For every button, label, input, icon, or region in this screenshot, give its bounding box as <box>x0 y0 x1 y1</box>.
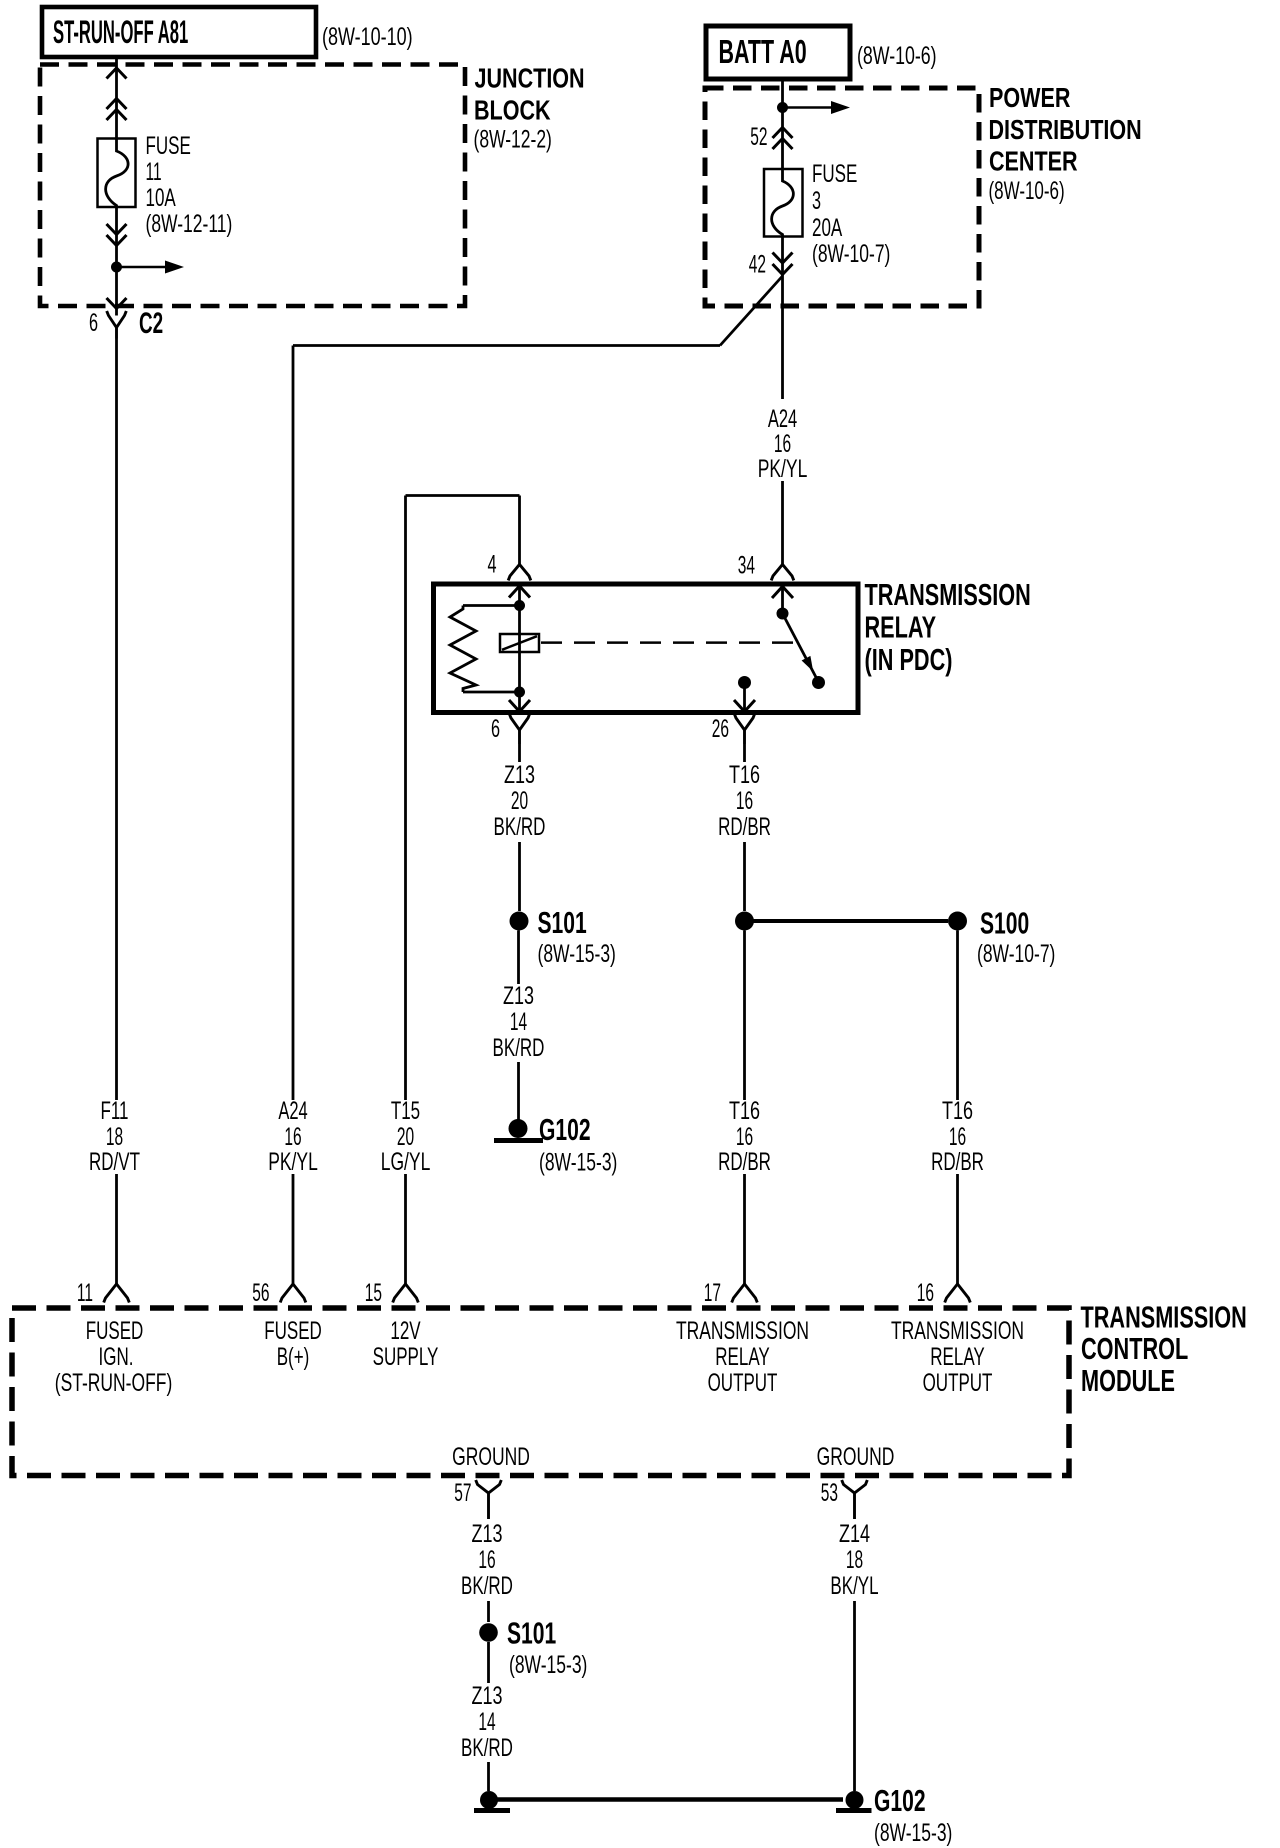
TCM pin 56 connector fork <box>280 1284 306 1303</box>
power feed box ST-RUN-OFF A81 <box>42 7 316 57</box>
svg-text:4: 4 <box>487 551 496 578</box>
svg-text:(8W-15-3): (8W-15-3) <box>509 1650 587 1679</box>
svg-text:6: 6 <box>491 716 500 743</box>
svg-text:SUPPLY: SUPPLY <box>373 1343 439 1371</box>
relay resistor <box>450 606 520 693</box>
double chevron connector above fuse 11 <box>107 99 127 121</box>
wire label Z13 14 BK/RD <box>493 981 545 1062</box>
ground G102 upper symbol <box>494 1119 543 1141</box>
svg-text:S101: S101 <box>507 1615 556 1650</box>
splice S101 <box>510 905 587 940</box>
svg-text:11: 11 <box>146 158 162 186</box>
double chevron connector 42 <box>773 253 793 275</box>
svg-text:BK/YL: BK/YL <box>830 1572 878 1600</box>
pin number 4 <box>487 551 496 578</box>
pin number 42 <box>749 251 766 279</box>
svg-text:RELAY: RELAY <box>715 1343 769 1371</box>
relay actuation dashed link <box>541 641 795 644</box>
svg-text:6: 6 <box>89 310 98 337</box>
wire Z14 down to ground G102 <box>853 1601 856 1791</box>
TCM pin 11 label FUSED IGN. <box>55 1317 173 1397</box>
wire label A24 16 PK/YL <box>758 406 808 483</box>
relay pin 26 arrow out of box <box>734 683 755 712</box>
relay pin 4 arrow into box <box>509 586 530 606</box>
svg-text:RD/BR: RD/BR <box>718 813 771 841</box>
relay coil bottom junction dot <box>514 687 525 698</box>
svg-text:18: 18 <box>846 1546 863 1574</box>
wire label T16 16 RD/BR left column <box>718 1096 771 1176</box>
wire label T16 16 RD/BR <box>718 760 771 841</box>
svg-text:20: 20 <box>511 787 528 815</box>
svg-text:PK/YL: PK/YL <box>268 1147 318 1176</box>
svg-text:3: 3 <box>812 188 821 215</box>
svg-text:BLOCK: BLOCK <box>474 95 551 126</box>
svg-text:(8W-15-3): (8W-15-3) <box>539 1147 617 1176</box>
svg-text:S100: S100 <box>980 905 1029 940</box>
svg-text:OUTPUT: OUTPUT <box>923 1369 993 1397</box>
wire label Z14 18 BK/YL <box>830 1519 878 1600</box>
svg-text:BK/RD: BK/RD <box>461 1572 513 1600</box>
wire T15 jog from relay pin 4 <box>406 496 520 565</box>
transmission relay name label <box>865 577 1031 677</box>
TCM pin 57 connector fork <box>476 1480 502 1519</box>
wire label Z13 14 BK/RD lower <box>461 1681 513 1762</box>
connector name C2 <box>139 307 163 341</box>
ground G102 lower label <box>874 1783 952 1847</box>
svg-text:34: 34 <box>738 552 755 580</box>
svg-text:57: 57 <box>454 1479 471 1507</box>
svg-text:PK/YL: PK/YL <box>758 454 808 483</box>
svg-text:T16: T16 <box>729 1096 760 1125</box>
pin number 15 <box>365 1279 382 1307</box>
svg-text:BK/RD: BK/RD <box>494 813 546 841</box>
svg-text:FUSED: FUSED <box>86 1317 144 1345</box>
svg-text:G102: G102 <box>874 1783 926 1818</box>
svg-text:C2: C2 <box>139 307 163 341</box>
TCM pin 16 label TRANSMISSION RELAY OUTPUT <box>891 1316 1024 1397</box>
svg-text:53: 53 <box>821 1479 838 1507</box>
svg-text:(8W-15-3): (8W-15-3) <box>538 939 616 968</box>
fuse 3 value label <box>812 160 890 268</box>
junction dot with branch arrow in PDC <box>777 101 850 114</box>
svg-text:TRANSMISSION: TRANSMISSION <box>891 1316 1024 1345</box>
relay coil top junction dot <box>514 600 525 611</box>
double chevron connector 52 <box>773 128 793 150</box>
svg-text:TRANSMISSION: TRANSMISSION <box>1081 1300 1247 1335</box>
junction dot with branch arrow in junction block <box>111 261 184 274</box>
connector C2 fork pin 6 <box>107 311 127 339</box>
pin number 26 <box>712 715 729 743</box>
fuse 11 symbol <box>98 139 136 208</box>
svg-text:42: 42 <box>749 251 766 279</box>
relay pin 34 connector fork <box>771 564 794 580</box>
power distribution center name label <box>989 82 1142 204</box>
wire label T16 16 RD/BR right column <box>931 1096 984 1176</box>
wire label T15 20 LG/YL <box>381 1097 431 1176</box>
svg-text:IGN.: IGN. <box>99 1343 134 1371</box>
pin number 17 <box>704 1279 721 1307</box>
label (8W-10-10) <box>322 22 413 51</box>
svg-text:BK/RD: BK/RD <box>493 1034 545 1062</box>
svg-text:JUNCTION: JUNCTION <box>475 63 585 94</box>
svg-text:52: 52 <box>750 123 767 151</box>
pin number 6 at C2 <box>89 310 98 337</box>
svg-text:16: 16 <box>478 1546 495 1574</box>
splice S101 reference label <box>538 939 616 968</box>
double chevron connector below fuse 11 <box>107 224 127 246</box>
svg-text:DISTRIBUTION: DISTRIBUTION <box>989 114 1142 145</box>
connector chevron at junction block border <box>107 68 127 79</box>
TCM pin 56 label FUSED B(+) <box>264 1317 322 1371</box>
wire label A24 16 PK/YL lower <box>268 1098 318 1176</box>
left ground terminal G102 <box>474 1791 510 1811</box>
svg-text:GROUND: GROUND <box>452 1442 530 1471</box>
svg-text:T15: T15 <box>391 1097 420 1125</box>
wire link to splice S100 <box>753 919 948 923</box>
splice junction dot on T16 <box>735 912 754 931</box>
svg-text:CENTER: CENTER <box>989 146 1078 177</box>
svg-text:14: 14 <box>510 1008 527 1036</box>
ground G102 upper label <box>539 1112 617 1176</box>
svg-text:LG/YL: LG/YL <box>381 1147 431 1176</box>
svg-text:56: 56 <box>252 1279 269 1307</box>
relay switch contact dot <box>812 676 825 689</box>
svg-text:(IN PDC): (IN PDC) <box>865 642 953 677</box>
svg-text:FUSED: FUSED <box>264 1317 322 1345</box>
label (8W-10-6) <box>857 41 937 70</box>
svg-text:16: 16 <box>736 787 753 815</box>
wire T16 from relay pin 26 to splice S100 tap <box>743 744 746 911</box>
svg-text:RELAY: RELAY <box>930 1343 984 1371</box>
svg-text:14: 14 <box>478 1708 495 1736</box>
svg-text:(8W-12-2): (8W-12-2) <box>474 124 552 153</box>
pin number 57 <box>454 1479 471 1507</box>
svg-text:Z13: Z13 <box>503 981 534 1010</box>
relay switch pivot dot <box>777 608 789 620</box>
splice S100 reference label <box>977 939 1055 968</box>
relay switch arm <box>783 614 819 683</box>
svg-text:10A: 10A <box>146 184 177 212</box>
TCM ground label right <box>817 1442 895 1471</box>
TCM pin 11 connector fork <box>104 1284 130 1303</box>
wire label F11 18 RD/VT <box>89 1097 140 1176</box>
relay pin 26 contact dot <box>738 676 751 689</box>
TCM pin 16 connector fork <box>945 1284 971 1303</box>
svg-text:FUSE: FUSE <box>812 160 857 188</box>
svg-text:15: 15 <box>365 1279 382 1307</box>
TCM pin 15 connector fork <box>393 1284 419 1303</box>
svg-text:GROUND: GROUND <box>817 1442 895 1471</box>
svg-text:B(+): B(+) <box>277 1343 310 1371</box>
svg-text:RD/BR: RD/BR <box>718 1148 771 1176</box>
relay pin 6 connector fork <box>509 714 530 745</box>
fuse 11 value label <box>146 132 233 238</box>
svg-text:T16: T16 <box>729 760 760 789</box>
junction block dashed box <box>40 65 465 307</box>
power distribution center dashed box <box>705 88 979 306</box>
wire T16 down to TCM pin 17 <box>743 931 746 1285</box>
branch wire horizontal run <box>293 344 720 347</box>
pin number 16 <box>917 1279 934 1307</box>
wire Z13 from relay pin 6 to splice S101 <box>518 744 521 911</box>
svg-text:Z14: Z14 <box>839 1519 870 1548</box>
svg-text:F11: F11 <box>100 1097 128 1125</box>
TCM pin 17 label TRANSMISSION RELAY OUTPUT <box>676 1316 809 1397</box>
wire A24 vertical down to TCM pin 56 <box>292 346 295 1285</box>
svg-text:A24: A24 <box>278 1098 308 1125</box>
svg-text:16: 16 <box>917 1279 934 1307</box>
svg-text:RD/VT: RD/VT <box>89 1148 140 1176</box>
splice S101 lower <box>479 1615 556 1650</box>
TCM ground label left <box>452 1442 530 1471</box>
TCM pin 17 connector fork <box>732 1284 758 1303</box>
ground link wire <box>497 1797 843 1802</box>
svg-text:A24: A24 <box>768 406 798 433</box>
svg-text:TRANSMISSION: TRANSMISSION <box>865 577 1031 612</box>
svg-text:(8W-10-6): (8W-10-6) <box>857 41 937 70</box>
TCM pin 15 label 12V SUPPLY <box>373 1317 439 1371</box>
svg-text:(8W-10-6): (8W-10-6) <box>989 177 1065 205</box>
wire T16 from S100 down to TCM pin 16 <box>956 931 959 1285</box>
svg-text:(8W-12-11): (8W-12-11) <box>146 209 233 238</box>
svg-text:MODULE: MODULE <box>1081 1363 1175 1398</box>
wire BATT feed down to fuse 3 <box>781 79 784 169</box>
pin number 11 <box>77 1279 93 1307</box>
svg-text:11: 11 <box>77 1279 93 1307</box>
fuse 3 symbol <box>764 169 803 237</box>
svg-text:(8W-10-7): (8W-10-7) <box>977 939 1055 968</box>
svg-text:G102: G102 <box>539 1112 591 1147</box>
svg-text:20A: 20A <box>812 214 843 242</box>
wire Z13 from S101 to ground <box>487 1642 490 1683</box>
junction block name label <box>474 63 585 153</box>
pin number 56 <box>252 1279 269 1307</box>
svg-text:TRANSMISSION: TRANSMISSION <box>676 1316 809 1345</box>
svg-text:17: 17 <box>704 1279 721 1307</box>
svg-text:Z13: Z13 <box>504 760 535 789</box>
svg-text:(ST-RUN-OFF): (ST-RUN-OFF) <box>55 1368 173 1397</box>
relay pin 26 connector fork <box>734 714 755 745</box>
wire fuse 11 to splice dot <box>115 207 118 267</box>
pin number 52 <box>750 123 767 151</box>
wire down to connector C2 <box>115 267 118 316</box>
splice S101 lower reference label <box>509 1650 587 1679</box>
relay coil winding <box>500 606 539 693</box>
wire Z13 to splice S101 lower <box>487 1601 490 1622</box>
svg-text:POWER: POWER <box>989 82 1070 113</box>
transmission control module dashed box <box>12 1308 1069 1476</box>
svg-text:BATT A0: BATT A0 <box>719 33 807 70</box>
chevron at junction block lower border <box>107 298 127 309</box>
pin number 53 <box>821 1479 838 1507</box>
right ground terminal G102 <box>836 1791 872 1811</box>
svg-text:T16: T16 <box>942 1096 973 1125</box>
wire F11 from C2 down to TCM pin 11 <box>115 339 118 1285</box>
svg-text:26: 26 <box>712 715 729 743</box>
svg-text:S101: S101 <box>538 905 587 940</box>
wire label Z13 20 BK/RD <box>494 760 546 841</box>
wire down to left ground dot <box>487 1762 490 1791</box>
wire A24 from fuse 3 down to relay pin 34 <box>781 237 784 565</box>
svg-text:OUTPUT: OUTPUT <box>708 1369 778 1397</box>
splice S100 <box>948 905 1029 940</box>
transmission control module name label <box>1081 1300 1247 1398</box>
relay pin 34 arrow into box <box>772 587 793 614</box>
TCM pin 53 connector fork <box>842 1480 868 1519</box>
svg-text:(8W-15-3): (8W-15-3) <box>874 1818 952 1847</box>
relay pin 6 arrow out of box <box>509 692 530 712</box>
svg-text:FUSE: FUSE <box>146 132 191 160</box>
relay pin 4 connector fork <box>508 564 531 580</box>
branch wire diagonal from connector 42 to TCM feed <box>720 276 783 346</box>
svg-text:Z13: Z13 <box>471 1681 502 1710</box>
transmission relay box <box>434 584 859 713</box>
power feed box BATT A0 <box>706 26 850 79</box>
wire T15 vertical down to TCM pin 15 <box>404 496 407 1285</box>
svg-text:RD/BR: RD/BR <box>931 1148 984 1176</box>
wire label Z13 16 BK/RD <box>461 1519 513 1600</box>
svg-text:BK/RD: BK/RD <box>461 1734 513 1762</box>
svg-text:RELAY: RELAY <box>865 610 937 645</box>
svg-text:ST-RUN-OFF A81: ST-RUN-OFF A81 <box>53 15 188 50</box>
svg-text:(8W-10-7): (8W-10-7) <box>812 239 890 268</box>
wire A81 feed down to fuse 11 <box>115 57 118 139</box>
wire Z13 from S101 to ground G102 <box>517 931 520 1121</box>
pin number 6 at relay <box>491 716 500 743</box>
svg-text:12V: 12V <box>390 1317 421 1345</box>
svg-text:CONTROL: CONTROL <box>1081 1331 1188 1366</box>
svg-text:Z13: Z13 <box>471 1519 502 1548</box>
pin number 34 <box>738 552 755 580</box>
svg-text:(8W-10-10): (8W-10-10) <box>322 22 413 51</box>
